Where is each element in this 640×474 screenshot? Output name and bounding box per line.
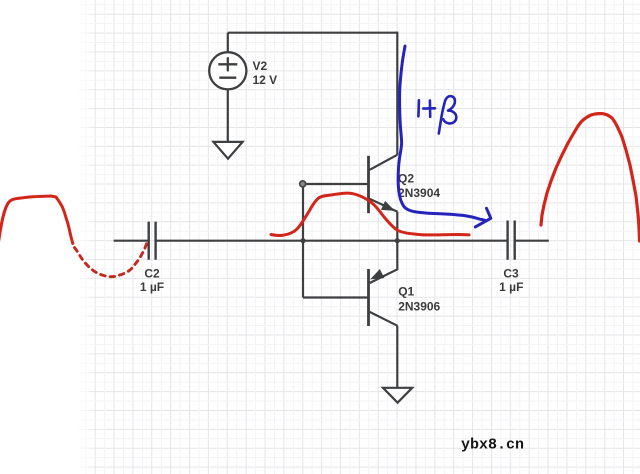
C2 value label — [140, 266, 164, 294]
node: junction on main rail at emitters — [395, 238, 400, 243]
svg-text:2N3904: 2N3904 — [398, 186, 440, 200]
transistor Q2 2N3904 — [369, 155, 398, 241]
svg-text:Q1: Q1 — [398, 284, 414, 298]
svg-text:2N3906: 2N3906 — [398, 299, 440, 313]
svg-text:C3: C3 — [503, 266, 519, 280]
wire V2 top lead — [227, 33, 229, 53]
ground under V2 — [213, 142, 242, 159]
V2 value label — [253, 59, 278, 87]
capacitor C3 — [508, 221, 515, 260]
wire output segment from C3 — [515, 240, 549, 242]
wire base bus vertical — [302, 184, 304, 298]
capacitor C2 — [149, 222, 156, 260]
wire input segment to C2 — [114, 240, 148, 242]
svg-text:12 V: 12 V — [253, 73, 278, 87]
annotation: blue 1+beta current path with arrow — [398, 46, 491, 227]
annotation: red output waveform — [541, 114, 640, 241]
wire Q2 collector vertical — [396, 32, 398, 155]
annotation: handwritten 1+beta text (blue) — [418, 96, 456, 133]
annotation: red mid waveform at emitters — [271, 193, 469, 235]
svg-text:V2: V2 — [253, 59, 268, 73]
ground at Q1 collector — [383, 388, 412, 403]
node: junction on main rail at base bus — [300, 238, 305, 243]
svg-text:Q2: Q2 — [398, 171, 414, 185]
svg-text:ybx8.cn: ybx8.cn — [461, 436, 524, 453]
watermark ybx8.cn — [461, 436, 524, 453]
C3 value label — [499, 266, 523, 294]
transistor Q1 2N3906 — [369, 241, 398, 388]
Q2 label — [398, 171, 440, 199]
wire Q1 base lead — [303, 296, 369, 298]
svg-text:C2: C2 — [144, 266, 160, 280]
svg-text:1 µF: 1 µF — [140, 280, 164, 294]
wire Q2 base lead — [303, 183, 369, 185]
voltage source V2 — [209, 52, 246, 89]
Q1 label — [398, 284, 440, 313]
annotation: red input waveform (dashed negative half) — [75, 244, 147, 277]
svg-text:1 µF: 1 µF — [499, 280, 523, 294]
annotation: red input waveform (solid hump) — [0, 196, 73, 246]
wire top rail from V2 to Q2 collector — [228, 32, 397, 34]
wire V2 bottom lead — [227, 89, 229, 141]
wire main rail C2 to C3 — [156, 240, 508, 242]
node: gray net marker on base bus — [300, 181, 306, 187]
